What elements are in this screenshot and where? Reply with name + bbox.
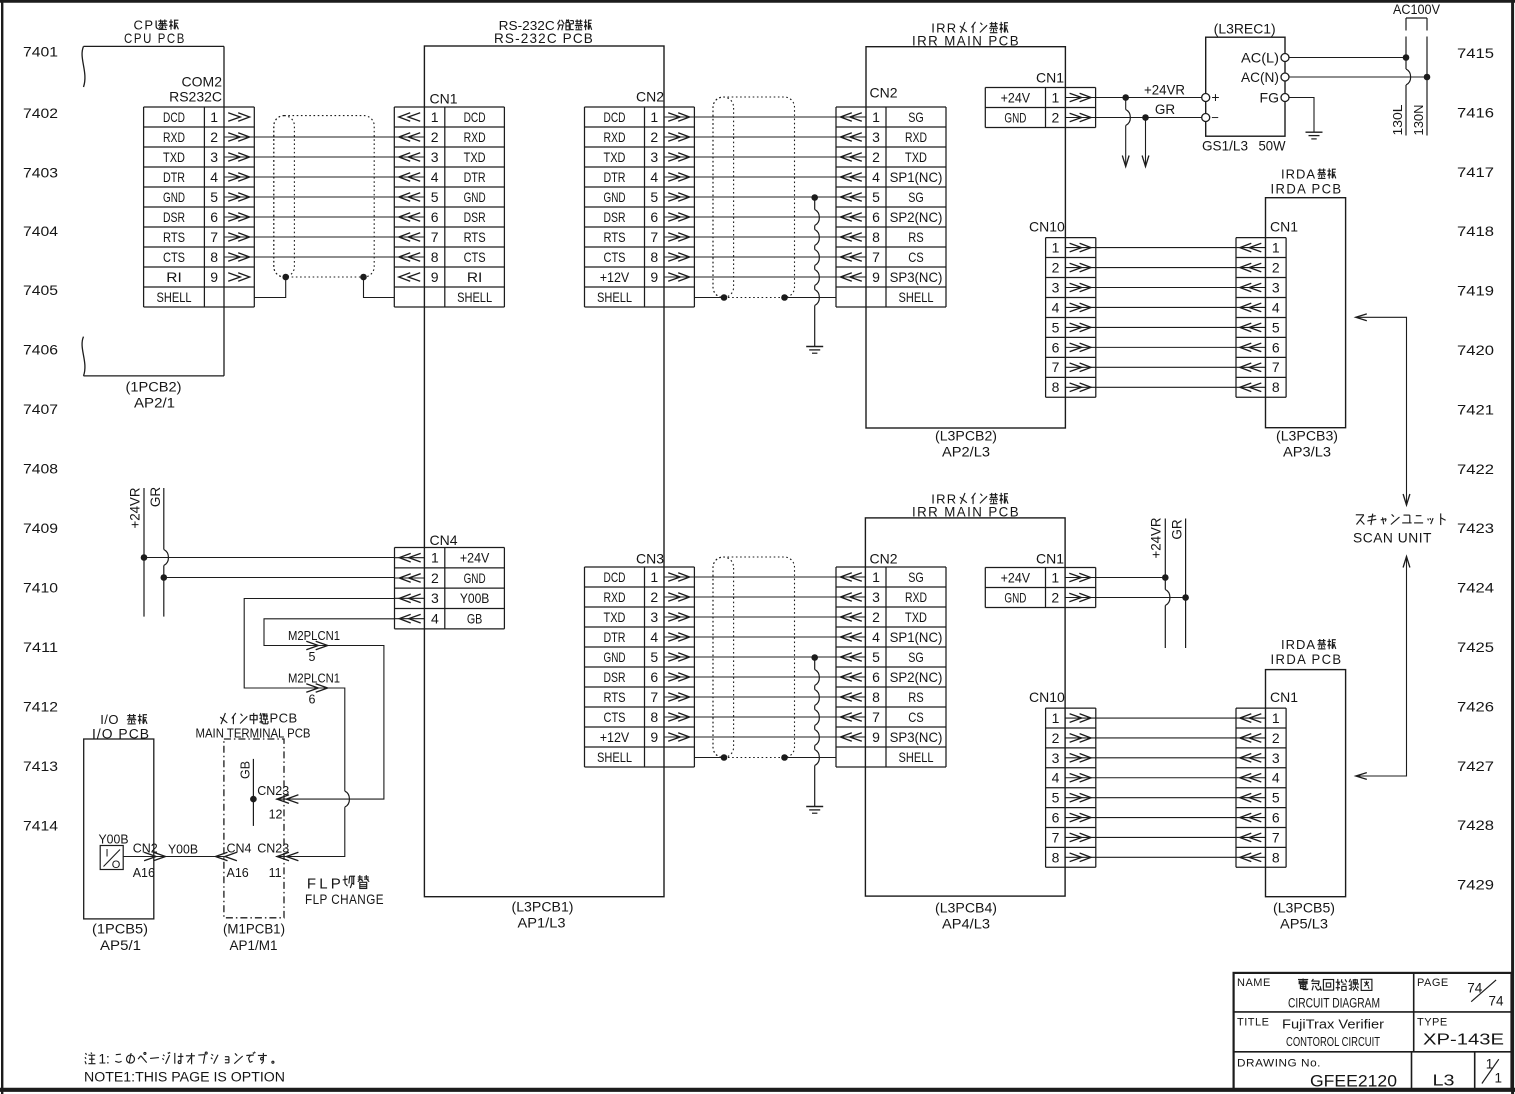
svg-text:Y00B: Y00B — [460, 590, 490, 606]
svg-text:SHELL: SHELL — [597, 749, 632, 765]
IRDA PCB designator (L3PCB3) AP3/L3 — [1276, 429, 1338, 460]
wire GND to GR rail (bottom) — [1096, 597, 1186, 599]
svg-text:4: 4 — [431, 169, 439, 185]
PSU terminal - (circle) — [1202, 110, 1219, 125]
wire +24VR rail to CN4 pin1 — [144, 557, 395, 559]
svg-text:1: 1 — [1051, 569, 1059, 585]
svg-text:CPU PCB: CPU PCB — [124, 30, 186, 46]
svg-text:CN2: CN2 — [870, 550, 898, 566]
svg-text:RTS: RTS — [604, 689, 626, 705]
wire SHELL IRR side — [785, 297, 837, 299]
svg-text:RXD: RXD — [604, 589, 626, 605]
svg-text:5: 5 — [1272, 319, 1280, 335]
feeder label 130L — [1390, 105, 1405, 136]
connector table CN1 (IRR MAIN PCB top, +24V/GND) — [985, 88, 1095, 128]
wire CN3 pin 3 to IRR CN2 bottom (TXD) — [694, 616, 836, 618]
svg-text:CN1: CN1 — [430, 90, 458, 106]
pin label CN23 (pin12) — [257, 784, 289, 798]
svg-text:IRDA PCB: IRDA PCB — [1271, 651, 1343, 667]
power supply designator (L3REC1) — [1214, 22, 1276, 37]
svg-text:GR: GR — [1170, 519, 1185, 540]
I/O PCB title (I/O基板 / I/O PCB) — [92, 712, 150, 742]
svg-text:M2PLCN1: M2PLCN1 — [288, 629, 340, 643]
wire CN3 pin 8 to IRR CN2 bottom (CS) — [694, 716, 836, 718]
svg-text:AC(L): AC(L) — [1241, 49, 1279, 65]
svg-text:130N: 130N — [1411, 105, 1426, 136]
svg-text:RI: RI — [166, 269, 182, 285]
svg-text:RTS: RTS — [604, 229, 626, 245]
svg-text:DSR: DSR — [464, 209, 486, 225]
junction dot AC(N) 130N — [1424, 74, 1431, 81]
net label GR rotated (bottom right) — [1170, 519, 1185, 540]
GR rail (left) — [164, 488, 169, 617]
PSU terminal + (circle) — [1202, 89, 1220, 105]
svg-text:DSR: DSR — [163, 209, 185, 225]
svg-text:7405: 7405 — [23, 283, 58, 298]
connector label CN1 (IRR MAIN PCB top) — [1036, 69, 1064, 85]
wire CN10 pin 4 to IRDA CN1 pin 4 (bottom) — [1096, 777, 1236, 779]
CPU PCB box outline — [82, 46, 224, 376]
zone label 7419 — [1457, 284, 1494, 299]
svg-text:5: 5 — [431, 189, 439, 205]
svg-text:9: 9 — [872, 269, 880, 285]
zone label 7406 — [23, 342, 58, 357]
wire CN10 pin 5 to IRDA CN1 pin 5 (bottom) — [1096, 797, 1236, 799]
junction dot GR — [1142, 114, 1149, 121]
svg-text:9: 9 — [650, 729, 658, 745]
svg-text:GND: GND — [1004, 109, 1026, 125]
wire COM2 pin 2 to CN1 pin 2 (RXD) — [254, 136, 394, 138]
MAIN TERMINAL PCB designator (M1PCB1) AP1/M1 — [223, 922, 285, 954]
svg-text:AC100V: AC100V — [1393, 2, 1440, 17]
svg-text:SP2(NC): SP2(NC) — [890, 209, 943, 225]
wire IRR CN1 +24V to PSU + — [1096, 97, 1202, 99]
cable bundle (CN2 to IRR CN2) — [713, 97, 795, 298]
svg-text:(L3PCB4): (L3PCB4) — [935, 901, 997, 916]
svg-text:XP-143E: XP-143E — [1423, 1031, 1504, 1048]
net label GR rotated (left) — [148, 487, 163, 508]
wire SHELL CN3 side — [694, 757, 724, 759]
M2PLCN1 pin6 arrow — [306, 684, 327, 693]
svg-text:4: 4 — [1052, 299, 1060, 315]
junction dot GB stub — [250, 796, 257, 803]
IRR MAIN PCB designator (L3PCB4) AP4/L3 — [935, 901, 997, 932]
wire COM2 pin 5 to CN1 pin 5 (GND) — [254, 196, 394, 198]
svg-text:+: + — [1211, 89, 1219, 105]
I/O PCB box outline — [84, 739, 154, 919]
svg-text:3: 3 — [650, 149, 658, 165]
note line 1 (注1:このページはオプションです。) — [85, 1052, 274, 1067]
svg-text:3: 3 — [650, 609, 658, 625]
zone label 7418 — [1457, 224, 1494, 239]
zone label 7420 — [1457, 343, 1494, 358]
svg-text:5: 5 — [650, 649, 658, 665]
svg-text:Y00B: Y00B — [168, 841, 198, 856]
net label +24VR rotated (bottom right) — [1149, 517, 1164, 558]
pin number 6 (M2PLCN1) — [309, 693, 316, 707]
svg-text:CN4: CN4 — [430, 532, 458, 548]
net label GR (top) — [1155, 102, 1176, 117]
I/O PCB CN2 pin arrow — [144, 852, 165, 861]
CN23 pin11 arrow — [277, 852, 298, 861]
IRR MAIN PCB title (IRRメイン基板 / IRR MAIN PCB) — [912, 21, 1020, 49]
junction dot on cable shield left — [282, 274, 289, 281]
junction dot +24VR rail (bottom) — [1162, 574, 1169, 581]
wire Y00B vertical into CN23 pin11 — [276, 807, 345, 856]
connector table CN4 (+24V GND Y00B GB) — [395, 548, 505, 629]
svg-text:3: 3 — [872, 589, 880, 605]
svg-text:CN1: CN1 — [1270, 218, 1298, 234]
connector table CN3 (RS-232C PCB, pins 1-9 + SHELL) — [585, 567, 695, 767]
zone label 7424 — [1457, 581, 1495, 596]
junction dot AC(L) 130L — [1403, 54, 1410, 61]
cable bundle (CN3 to IRR CN2) — [713, 557, 795, 758]
svg-text:6: 6 — [210, 209, 218, 225]
junction dot cable B right — [781, 294, 788, 301]
wire AC(N) — [1289, 76, 1427, 78]
svg-text:CTS: CTS — [163, 249, 185, 265]
svg-text:1: 1 — [650, 569, 658, 585]
svg-text:+24V: +24V — [1001, 569, 1031, 585]
svg-text:6: 6 — [650, 209, 658, 225]
svg-text:7411: 7411 — [23, 640, 58, 655]
svg-text:2: 2 — [872, 149, 880, 165]
svg-text:CN2: CN2 — [636, 88, 664, 104]
svg-text:4: 4 — [650, 629, 658, 645]
svg-text:IRDA: IRDA — [1281, 637, 1316, 652]
IRDA PCB designator (L3PCB5) AP5/L3 — [1273, 901, 1335, 932]
title block title (FujiTrax Verifier CONTOROL CIRCUIT) — [1282, 1016, 1385, 1049]
PSU terminal AC(N) — [1241, 69, 1289, 85]
pin label A16 (MAIN TERMINAL) — [227, 866, 249, 880]
wire CN3 pin 9 to IRR CN2 bottom (SP3(NC)) — [694, 736, 836, 738]
svg-text:RTS: RTS — [464, 229, 486, 245]
svg-text:7419: 7419 — [1457, 284, 1494, 299]
wire CN2 pin 8 to IRR CN2 (CS) — [694, 256, 836, 258]
connector label CN1 (RS-232C PCB) — [430, 90, 458, 106]
wire FG to ground — [1289, 98, 1314, 133]
svg-text:1: 1 — [1272, 239, 1280, 255]
RS-232C PCB designator (L3PCB1) AP1/L3 — [512, 900, 574, 931]
svg-text:4: 4 — [1052, 770, 1060, 786]
svg-text:DSR: DSR — [604, 209, 626, 225]
I/O relay symbol Y00B — [99, 832, 129, 872]
svg-text:SCAN UNIT: SCAN UNIT — [1353, 531, 1432, 546]
svg-text:4: 4 — [872, 629, 880, 645]
wire CN2 pin 1 to IRR CN2 (SG) — [694, 116, 836, 118]
svg-text:5: 5 — [1272, 790, 1280, 806]
svg-text:2: 2 — [1272, 730, 1280, 746]
IRDA PCB title (IRDA基板 / IRDA PCB) top — [1271, 167, 1343, 197]
svg-text:SG: SG — [908, 189, 924, 205]
svg-text:3: 3 — [1052, 750, 1060, 766]
PSU value label GS1/L3 50W — [1202, 138, 1286, 154]
net label M2PLCN1 (pin6) — [288, 672, 340, 686]
svg-text:7408: 7408 — [23, 461, 58, 476]
svg-text:7417: 7417 — [1457, 165, 1494, 180]
FLP switch label (FLP切替 / FLP CHANGE) — [305, 875, 384, 907]
M2PLCN1 pin5 arrow — [306, 641, 327, 650]
svg-text:GND: GND — [464, 189, 486, 205]
arrow from scan unit to IRDA PCB (bottom) — [1356, 557, 1410, 780]
svg-text:+24V: +24V — [460, 550, 490, 566]
svg-text:RI: RI — [467, 269, 483, 285]
svg-text:8: 8 — [650, 709, 658, 725]
svg-text:7: 7 — [1052, 829, 1060, 845]
svg-text:4: 4 — [650, 169, 658, 185]
svg-text:7409: 7409 — [23, 521, 58, 536]
svg-text:IRDA: IRDA — [1281, 167, 1316, 182]
connector table CN10 (IRR MAIN PCB top, pins 1-8) — [1046, 238, 1096, 398]
IRR MAIN PCB box outline (top) — [866, 47, 1065, 428]
zone label 7417 — [1457, 165, 1494, 180]
junction dot GR left rail — [161, 574, 168, 581]
svg-text:2: 2 — [1052, 109, 1060, 125]
wire GR rail to CN4 pin2 — [164, 577, 395, 579]
svg-text:1: 1 — [1272, 710, 1280, 726]
cable bundle (COM2 to CN1) — [274, 116, 374, 277]
wire Y00B from I/O PCB to MAIN TERMINAL PCB — [123, 856, 224, 858]
svg-text:GND: GND — [604, 649, 626, 665]
svg-text:9: 9 — [650, 269, 658, 285]
svg-text:AP5/L3: AP5/L3 — [1280, 917, 1328, 932]
svg-text:7427: 7427 — [1457, 759, 1494, 774]
svg-text:7424: 7424 — [1457, 581, 1495, 596]
junction dot +24VR left rail — [141, 554, 148, 561]
pin label CN4 (MAIN TERMINAL) — [227, 841, 252, 855]
wire +24V to +24VR rail (bottom) — [1096, 577, 1166, 579]
svg-text:8: 8 — [431, 249, 439, 265]
ground (FG) — [1306, 132, 1323, 139]
svg-text:RXD: RXD — [464, 129, 486, 145]
svg-text:CN1: CN1 — [1036, 550, 1064, 566]
wire Y00B: CN4 pin3 to M2PLCN1 pin6 — [244, 599, 394, 808]
svg-text:CS: CS — [908, 709, 924, 725]
svg-text:RS-232C PCB: RS-232C PCB — [494, 30, 594, 46]
svg-text:7422: 7422 — [1457, 462, 1494, 477]
svg-text:SG: SG — [908, 649, 924, 665]
svg-text:2: 2 — [872, 609, 880, 625]
svg-text:TXD: TXD — [604, 609, 626, 625]
svg-text:3: 3 — [872, 129, 880, 145]
svg-text:1: 1 — [1052, 239, 1060, 255]
svg-text:8: 8 — [1272, 849, 1280, 865]
MAIN TERMINAL CN4 pin arrow — [216, 852, 237, 861]
svg-text:CN10: CN10 — [1029, 218, 1065, 234]
svg-text:2: 2 — [1052, 730, 1060, 746]
svg-text:5: 5 — [872, 649, 880, 665]
GR rail (bottom right) — [1185, 519, 1187, 649]
svg-text:+24VR: +24VR — [1149, 517, 1164, 558]
svg-text:(L3REC1): (L3REC1) — [1214, 22, 1276, 37]
svg-text:7: 7 — [872, 249, 880, 265]
wire CN10 pin 4 to IRDA CN1 pin 4 (top) — [1096, 306, 1236, 308]
svg-text:7: 7 — [1272, 359, 1280, 375]
svg-text:GND: GND — [1004, 589, 1026, 605]
svg-text:2: 2 — [431, 129, 439, 145]
svg-text:6: 6 — [431, 209, 439, 225]
svg-text:1: 1 — [1052, 89, 1060, 105]
svg-text:RS: RS — [908, 689, 924, 705]
scan unit label (スキャンユニット / SCAN UNIT) — [1353, 513, 1446, 545]
wire CN10 pin 2 to IRDA CN1 pin 2 (bottom) — [1096, 737, 1236, 739]
wire CN10 pin 7 to IRDA CN1 pin 7 (bottom) — [1096, 836, 1236, 838]
wire CN10 pin 1 to IRDA CN1 pin 1 (bottom) — [1096, 717, 1236, 719]
svg-text:FLP: FLP — [307, 876, 344, 893]
pin label CN2 (I/O PCB) — [133, 841, 158, 855]
MAIN TERMINAL PCB box outline (dash-dot) — [224, 739, 284, 918]
ground (shield, top section) — [806, 347, 823, 354]
wire CN3 pin 7 to IRR CN2 bottom (RS) — [694, 696, 836, 698]
connector table CN1 (IRDA PCB top, pins 1-8) — [1236, 238, 1286, 398]
wire CN3 pin 5 to IRR CN2 bottom (SG) — [694, 656, 836, 658]
pin number 12 — [269, 807, 283, 821]
pin label CN23 (pin11) — [257, 841, 289, 855]
svg-text:2: 2 — [650, 589, 658, 605]
svg-text:7425: 7425 — [1457, 640, 1494, 655]
svg-text:2: 2 — [210, 129, 218, 145]
svg-text:SG: SG — [908, 109, 924, 125]
svg-text:GR: GR — [1155, 102, 1176, 117]
connector label CN2 (IRR MAIN PCB bottom) — [870, 550, 898, 566]
connector label CN3 (RS-232C PCB) — [636, 550, 664, 566]
AC100V bracket and feeder lines — [1406, 18, 1427, 136]
svg-text:7423: 7423 — [1457, 521, 1494, 536]
svg-text:7404: 7404 — [23, 224, 59, 239]
svg-text:CIRCUIT DIAGRAM: CIRCUIT DIAGRAM — [1288, 995, 1380, 1010]
svg-text:7: 7 — [431, 229, 439, 245]
net label GB rotated — [239, 761, 253, 779]
connector label CN1 (IRR MAIN PCB bottom) — [1036, 550, 1064, 566]
PSU terminal FG — [1260, 89, 1289, 105]
svg-text:7: 7 — [1272, 829, 1280, 845]
zone label 7422 — [1457, 462, 1494, 477]
zone label 7401 — [23, 44, 58, 59]
svg-text:1: 1 — [210, 109, 218, 125]
svg-text:7416: 7416 — [1457, 105, 1494, 120]
svg-text:SP2(NC): SP2(NC) — [890, 669, 943, 685]
svg-text:SHELL: SHELL — [597, 289, 632, 305]
zone label 7423 — [1457, 521, 1494, 536]
zone label 7407 — [23, 402, 58, 417]
svg-text:5: 5 — [210, 189, 218, 205]
svg-text:9: 9 — [872, 729, 880, 745]
svg-text:+24V: +24V — [1001, 89, 1031, 105]
zone label 7425 — [1457, 640, 1494, 655]
wire CN2 pin 6 to IRR CN2 (SP2(NC)) — [694, 216, 836, 218]
svg-text:5: 5 — [1052, 790, 1060, 806]
svg-text:7426: 7426 — [1457, 699, 1494, 714]
svg-text:GND: GND — [604, 189, 626, 205]
net label M2PLCN1 (pin5) — [288, 629, 340, 643]
title block drawing number GFEE2120 — [1310, 1072, 1397, 1090]
zone label 7413 — [23, 759, 58, 774]
+24VR rail (left) — [143, 488, 145, 617]
svg-text:CN1: CN1 — [1270, 689, 1298, 705]
svg-text:DTR: DTR — [604, 169, 626, 185]
wire CN2 pin 4 to IRR CN2 (SP1(NC)) — [694, 176, 836, 178]
connector table CN1 (RS-232C PCB, pins 1-9 + SHELL) — [394, 107, 504, 307]
wire GB: CN4 pin4 to M2PLCN1 pin5 down to CN23 pin12 — [264, 619, 395, 799]
svg-text:1: 1 — [650, 109, 658, 125]
title block type XP-143E — [1423, 1031, 1504, 1048]
svg-text:4: 4 — [431, 611, 439, 627]
svg-text:NOTE1:THIS PAGE IS OPTION: NOTE1:THIS PAGE IS OPTION — [84, 1069, 285, 1084]
svg-text:TXD: TXD — [905, 609, 927, 625]
svg-text:AP2/1: AP2/1 — [134, 396, 175, 411]
wire CN2 pin 9 to IRR CN2 (SP3(NC)) — [694, 276, 836, 278]
svg-text:7: 7 — [650, 689, 658, 705]
title block PAGE label — [1417, 977, 1449, 989]
wire CN3 pin 1 to IRR CN2 bottom (SG) — [694, 576, 836, 578]
svg-text:CS: CS — [908, 249, 924, 265]
svg-text:7428: 7428 — [1457, 818, 1494, 833]
net label +24VR (top) — [1144, 82, 1185, 97]
svg-text:50W: 50W — [1259, 138, 1287, 154]
title block DRAWING No. label — [1237, 1057, 1321, 1069]
svg-text:8: 8 — [650, 249, 658, 265]
wire CN2 pin 2 to IRR CN2 (RXD) — [694, 136, 836, 138]
zone label 7409 — [23, 521, 58, 536]
svg-text:DCD: DCD — [163, 109, 185, 125]
wire CN10 pin 8 to IRDA CN1 pin 8 (top) — [1096, 386, 1236, 388]
svg-text:6: 6 — [650, 669, 658, 685]
svg-text:SP3(NC): SP3(NC) — [890, 729, 943, 745]
svg-text:AP5/1: AP5/1 — [100, 938, 141, 953]
svg-text:FLP CHANGE: FLP CHANGE — [305, 892, 384, 907]
svg-text:DTR: DTR — [464, 169, 486, 185]
svg-text:1: 1 — [431, 550, 439, 566]
svg-text:4: 4 — [872, 169, 880, 185]
svg-text:RS232C: RS232C — [169, 89, 222, 105]
svg-text:8: 8 — [1272, 379, 1280, 395]
svg-text:TXD: TXD — [163, 149, 185, 165]
power supply GS1/L3 50W box — [1206, 37, 1285, 136]
svg-text:SHELL: SHELL — [899, 289, 934, 305]
wire CN3 pin 4 to IRR CN2 bottom (SP1(NC)) — [694, 636, 836, 638]
zone label 7408 — [23, 461, 58, 476]
svg-text:3: 3 — [1052, 279, 1060, 295]
svg-text:NAME: NAME — [1237, 977, 1271, 989]
svg-text:SG: SG — [908, 569, 924, 585]
svg-text:4: 4 — [1272, 770, 1280, 786]
svg-text:(L3PCB2): (L3PCB2) — [935, 429, 997, 444]
svg-text:1: 1 — [1495, 1070, 1503, 1085]
svg-text:−: − — [1211, 110, 1219, 125]
svg-text:1: 1 — [1052, 710, 1060, 726]
svg-text:6: 6 — [872, 669, 880, 685]
connector label CN2 (IRR MAIN PCB top) — [870, 84, 898, 100]
svg-text:TITLE: TITLE — [1237, 1016, 1269, 1028]
stub +24VR down arrow — [1122, 98, 1130, 167]
CN23 pin12 arrow — [277, 795, 298, 804]
svg-text:2: 2 — [1052, 259, 1060, 275]
shield drain bus (bottom section) — [811, 654, 819, 806]
svg-text:6: 6 — [1052, 339, 1060, 355]
svg-text:SP3(NC): SP3(NC) — [890, 269, 943, 285]
svg-text:6: 6 — [1272, 809, 1280, 825]
svg-text:DRAWING No.: DRAWING No. — [1237, 1057, 1321, 1069]
svg-text:5: 5 — [309, 650, 316, 664]
svg-text:RTS: RTS — [163, 229, 185, 245]
svg-text:11: 11 — [269, 866, 282, 880]
I/O PCB designator (1PCB5) AP5/1 — [92, 922, 148, 954]
svg-text:130L: 130L — [1390, 105, 1405, 136]
wire COM2 pin 8 to CN1 pin 8 (CTS) — [254, 256, 394, 258]
wire CN2 pin 5 to IRR CN2 (SG) — [694, 196, 836, 198]
wire CN2 pin 7 to IRR CN2 (RS) — [694, 236, 836, 238]
connector table CN2 (IRR MAIN PCB bottom) — [836, 567, 946, 767]
